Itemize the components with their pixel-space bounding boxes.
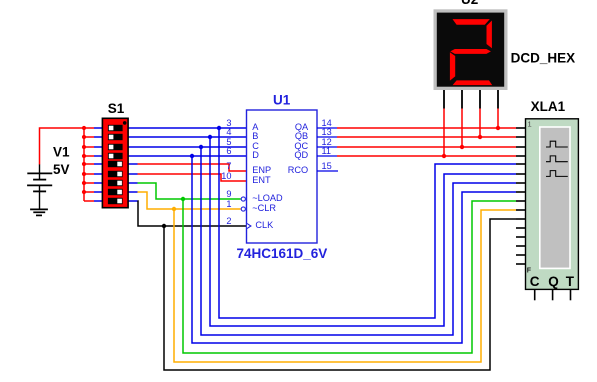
svg-text:CLK: CLK: [255, 220, 274, 230]
svg-text:RCO: RCO: [288, 165, 308, 175]
svg-text:7: 7: [226, 161, 231, 171]
svg-text:U2: U2: [461, 0, 478, 7]
svg-text:13: 13: [322, 127, 332, 137]
svg-text:Q: Q: [548, 274, 559, 289]
svg-text:15: 15: [322, 161, 332, 171]
svg-text:74HC161D_6V: 74HC161D_6V: [237, 246, 328, 261]
svg-text:11: 11: [322, 146, 332, 156]
svg-text:9: 9: [226, 189, 231, 199]
svg-text:5V: 5V: [53, 162, 70, 177]
svg-text:QB: QB: [295, 131, 308, 141]
svg-text:DCD_HEX: DCD_HEX: [511, 51, 576, 66]
svg-text:B: B: [252, 131, 258, 141]
svg-text:V1: V1: [53, 145, 70, 160]
svg-text:~CLR: ~CLR: [252, 203, 276, 213]
svg-text:6: 6: [226, 146, 231, 156]
svg-text:D: D: [252, 150, 259, 160]
svg-text:C: C: [530, 274, 540, 289]
svg-text:1: 1: [226, 199, 231, 209]
svg-text:~LOAD: ~LOAD: [252, 193, 283, 203]
svg-text:T: T: [566, 274, 575, 289]
svg-text:S1: S1: [108, 101, 125, 116]
svg-text:ENT: ENT: [252, 175, 271, 185]
svg-text:2: 2: [226, 216, 231, 226]
svg-text:4: 4: [226, 127, 231, 137]
svg-text:XLA1: XLA1: [531, 99, 566, 114]
svg-text:1: 1: [528, 120, 532, 129]
svg-text:ENP: ENP: [252, 165, 271, 175]
svg-text:U1: U1: [273, 93, 291, 108]
svg-text:10: 10: [221, 171, 231, 181]
svg-text:QD: QD: [294, 150, 308, 160]
